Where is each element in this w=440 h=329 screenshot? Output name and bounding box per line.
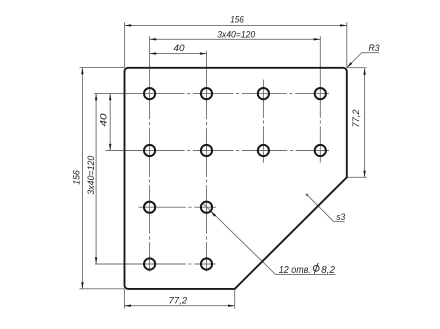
svg-text:R3: R3: [369, 43, 381, 53]
dimension line 3x40=120 top: [150, 38, 321, 40]
diameter symbol: [313, 265, 319, 271]
extension line bottom-right vertical: [234, 289, 236, 309]
hole 10 (d8.2): [201, 202, 212, 213]
centerline column 2: [206, 51, 208, 272]
leader 12 holes: [203, 203, 276, 274]
svg-text:3x40=120: 3x40=120: [86, 156, 96, 195]
centerline column 4: [319, 36, 321, 162]
centerline column 1: [149, 36, 151, 271]
dimension line 40 top: [150, 53, 207, 55]
svg-text:77,2: 77,2: [351, 109, 361, 127]
dimension line 156 top: [125, 24, 347, 26]
dimension line 77,2 bottom: [124, 305, 234, 307]
svg-text:156: 156: [230, 14, 244, 24]
svg-text:8,2: 8,2: [321, 265, 335, 276]
dimension line 77,2 right: [364, 68, 366, 177]
svg-text:156: 156: [72, 170, 82, 185]
extension line top-left vertical: [124, 22, 126, 68]
hole 9 (d8.2): [144, 202, 155, 213]
centerline row 3: [139, 206, 217, 208]
svg-text:3x40=120: 3x40=120: [217, 29, 256, 39]
extension line left bottom horizontal: [80, 288, 125, 290]
centerline column 3: [262, 80, 264, 163]
leader s3: [306, 194, 309, 197]
dimension line 40 left: [109, 94, 111, 151]
extension line right chamfer horizontal: [347, 176, 367, 178]
dimension line 156 left: [81, 68, 83, 289]
hole 11 (d8.2): [144, 258, 155, 269]
svg-text:77,2: 77,2: [169, 295, 187, 305]
extension line right top horizontal: [347, 67, 367, 69]
hole 7 (d8.2): [258, 145, 269, 156]
hole 8 (d8.2): [315, 145, 326, 156]
hole 5 (d8.2): [144, 145, 155, 156]
svg-text:40: 40: [174, 43, 186, 53]
plate outline: [125, 68, 347, 289]
extension line bottom-left vertical: [123, 289, 125, 309]
hole 2 (d8.2): [201, 88, 212, 99]
centerline row 4: [95, 263, 216, 265]
hole 3 (d8.2): [258, 88, 269, 99]
centerline row 2: [106, 150, 329, 152]
extension line left top horizontal: [80, 67, 125, 69]
hole 6 (d8.2): [201, 145, 212, 156]
centerline row 1: [94, 93, 329, 95]
hole 4 (d8.2): [315, 88, 326, 99]
dimension line 3x40=120 left: [95, 94, 97, 264]
hole 1 (d8.2): [144, 88, 155, 99]
svg-text:12 отв.: 12 отв.: [279, 265, 311, 276]
svg-text:s3: s3: [336, 212, 346, 222]
extension line top-right vertical: [346, 22, 348, 68]
hole 12 (d8.2): [201, 258, 212, 269]
svg-text:40: 40: [98, 114, 108, 127]
leader R3: [347, 53, 362, 68]
